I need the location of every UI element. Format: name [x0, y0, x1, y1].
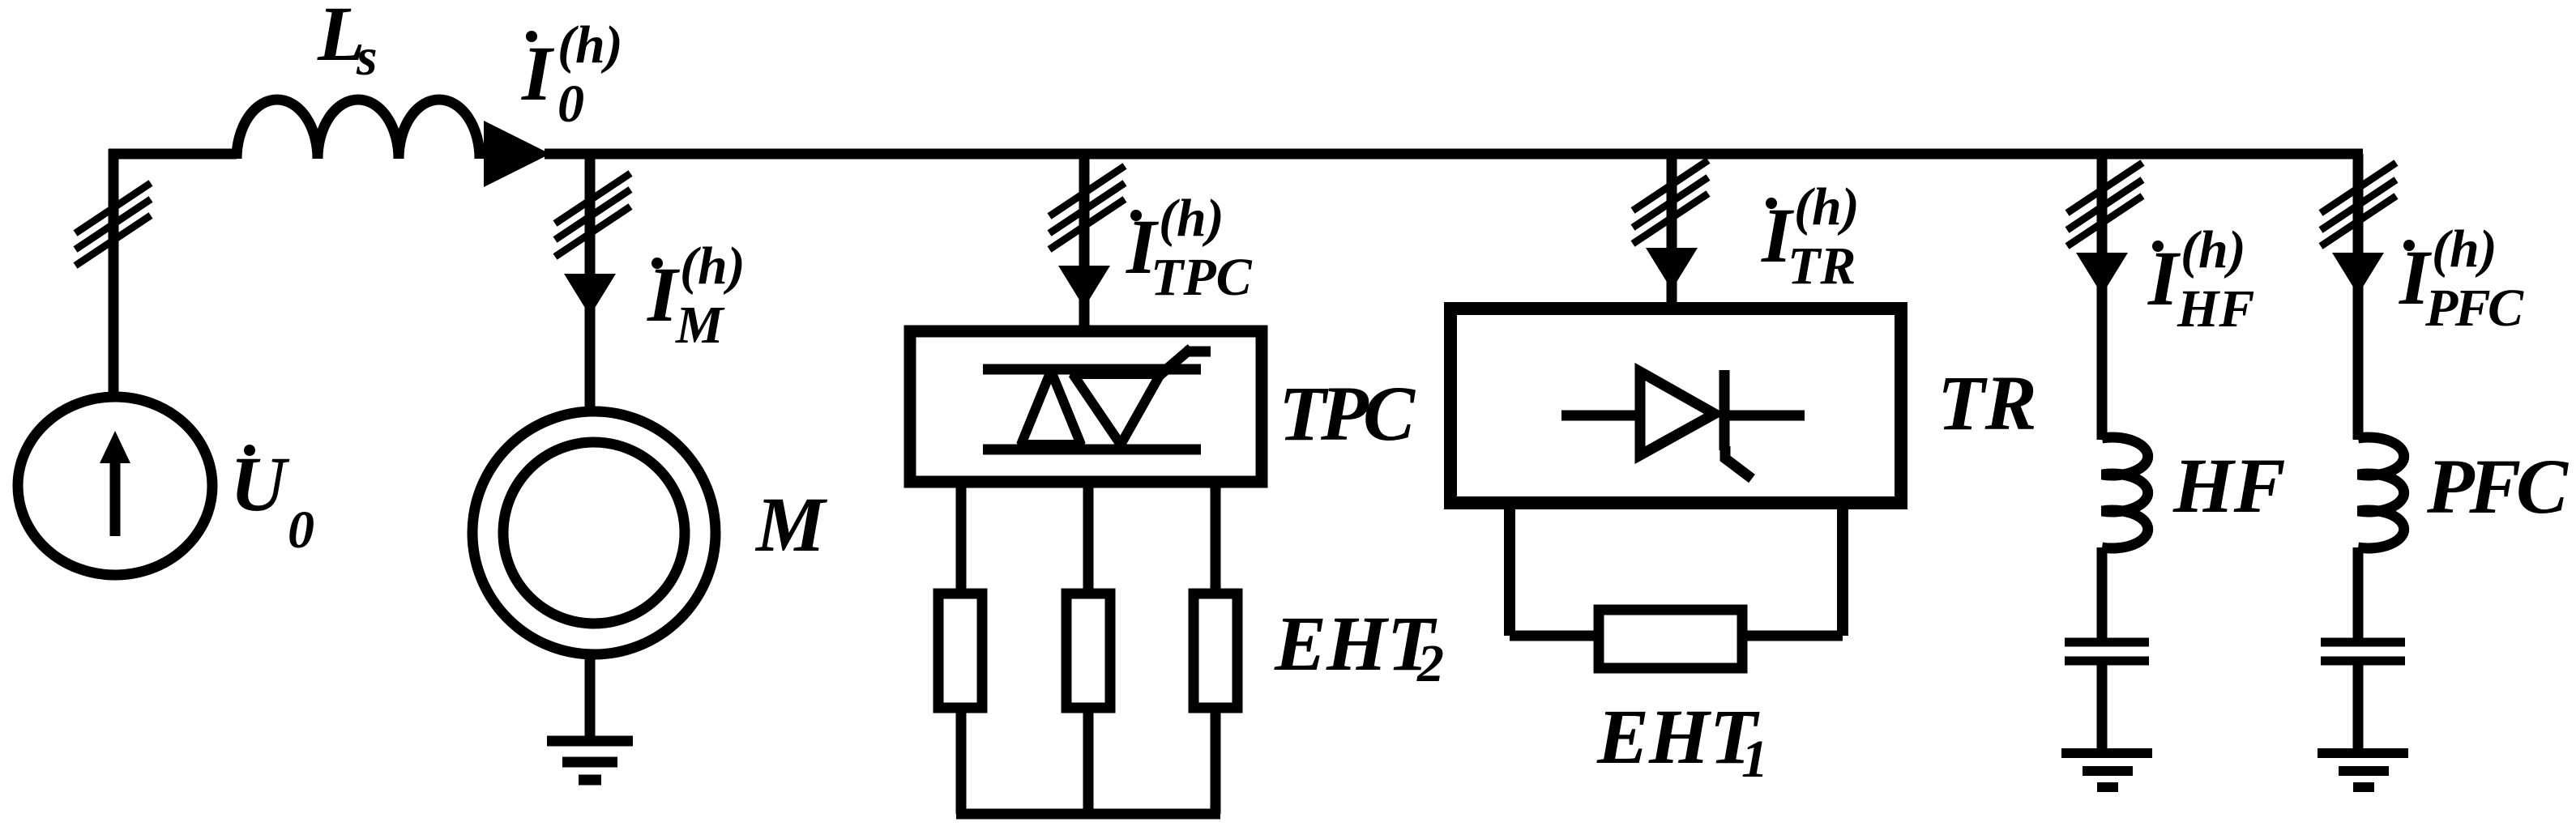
- hash branch M: [555, 173, 630, 257]
- svg-text:PFC: PFC: [2426, 443, 2569, 530]
- svg-text:TPC: TPC: [1279, 370, 1416, 457]
- label ITRh: [1766, 198, 1777, 209]
- svg-text:PFC: PFC: [2424, 279, 2524, 338]
- svg-text:TPC: TPC: [1151, 248, 1253, 307]
- box TPC: [910, 331, 1262, 482]
- svg-text:(h): (h): [557, 15, 623, 75]
- thyristor cathode bar: [1719, 370, 1730, 450]
- ground motor: [547, 736, 633, 747]
- arrow IM: [564, 274, 616, 316]
- svg-text:EHT: EHT: [1274, 600, 1438, 687]
- capacitor HF top plate: [2065, 638, 2149, 647]
- wire left horizontal stub: [109, 149, 237, 160]
- hash branch TR: [1633, 160, 1708, 244]
- label IPFCh: [2403, 240, 2415, 251]
- wire left leg to EHT1: [1510, 631, 1599, 641]
- triac down triangle: [1073, 374, 1160, 445]
- svg-text:(h): (h): [1159, 189, 1224, 248]
- svg-text:I: I: [2147, 235, 2181, 322]
- wire PFC coil to cap: [2353, 547, 2364, 642]
- motor M inner circle: [503, 442, 685, 624]
- thyristor gate lead: [1725, 446, 1752, 479]
- svg-text:M: M: [754, 481, 828, 568]
- label ITPCh: [1130, 210, 1142, 221]
- hash branch PFC: [2321, 163, 2396, 246]
- wire EHT2 a to bottom bar: [956, 708, 967, 814]
- wire left vertical: [109, 149, 119, 401]
- svg-text:I: I: [521, 30, 555, 117]
- resistor EHT1: [1599, 610, 1742, 668]
- svg-text:s: s: [356, 28, 378, 87]
- wire HF cap to ground: [2097, 661, 2108, 753]
- label U0: [244, 445, 255, 456]
- arrow IHF: [2076, 253, 2128, 295]
- svg-text:HF: HF: [2172, 442, 2286, 529]
- hash branch HF: [2067, 163, 2142, 246]
- resistor EHT2 a: [938, 594, 982, 708]
- ground PFC: [2318, 748, 2408, 758]
- ground HF: [2061, 748, 2152, 758]
- capacitor PFC top plate: [2321, 638, 2405, 647]
- node arrow I0: [484, 121, 550, 187]
- capacitor HF bottom plate: [2065, 657, 2149, 666]
- inductor Ls: [237, 100, 480, 159]
- arrow IPFC: [2332, 253, 2384, 295]
- svg-text:HF: HF: [2177, 279, 2254, 339]
- svg-text:(h): (h): [680, 236, 745, 296]
- wire PFC cap to ground: [2353, 661, 2364, 753]
- capacitor PFC bottom plate: [2321, 657, 2405, 666]
- svg-text:EHT: EHT: [1596, 693, 1760, 780]
- wire TR box left leg: [1504, 503, 1515, 636]
- hash left feeder: [75, 183, 151, 266]
- svg-text:0: 0: [288, 500, 314, 560]
- triac gate lead: [1157, 348, 1191, 377]
- svg-text:(h): (h): [2181, 220, 2246, 279]
- wire branch HF: [2097, 154, 2108, 440]
- wire main bus: [545, 149, 2363, 160]
- wire bottom bar TPC: [956, 809, 1220, 820]
- inductor HF: [2102, 437, 2148, 548]
- motor M outer circle: [472, 411, 716, 654]
- resistor EHT2 b: [1066, 594, 1110, 708]
- svg-text:M: M: [675, 296, 725, 355]
- svg-text:(h): (h): [1794, 177, 1860, 236]
- wire branch TR: [1667, 154, 1677, 309]
- thyristor triangle: [1640, 372, 1715, 455]
- wire EHT1 to right leg: [1742, 631, 1843, 641]
- arrow ITPC: [1058, 266, 1110, 308]
- thyristor anode lead: [1561, 411, 1638, 421]
- svg-text:0: 0: [557, 75, 584, 134]
- wire TPC box to EHT2 a: [956, 482, 967, 594]
- resistor EHT2 c: [1194, 594, 1237, 708]
- label IHFh: [2152, 241, 2164, 252]
- svg-text:U: U: [230, 441, 290, 527]
- label I0h: [526, 31, 537, 42]
- svg-text:2: 2: [1416, 634, 1444, 693]
- source U0 circle: [18, 397, 212, 575]
- wire HF coil to cap: [2097, 547, 2108, 642]
- wire TPC box to EHT2 c: [1211, 482, 1221, 594]
- svg-text:1: 1: [1741, 730, 1768, 789]
- source U0 arrow: [110, 462, 121, 536]
- wire branch PFC: [2353, 154, 2364, 440]
- wire TR box right leg: [1837, 503, 1848, 636]
- hash branch TPC: [1049, 166, 1125, 249]
- arrow ITR: [1646, 248, 1698, 290]
- wire branch M: [585, 154, 596, 415]
- inductor PFC: [2358, 437, 2404, 548]
- svg-text:TR: TR: [1937, 360, 2037, 446]
- wire EHT2 b to bottom bar: [1083, 708, 1094, 814]
- label IMh: [651, 258, 663, 269]
- wire EHT2 c to bottom bar: [1211, 708, 1221, 814]
- svg-text:TR: TR: [1788, 236, 1856, 296]
- wire branch TPC: [1079, 154, 1090, 331]
- triac up triangle: [1021, 371, 1081, 445]
- thyristor cathode lead: [1724, 411, 1805, 421]
- svg-text:(h): (h): [2432, 219, 2497, 279]
- triac top bar: [983, 364, 1201, 375]
- wire TPC box to EHT2 b: [1083, 482, 1094, 594]
- wire below motor: [585, 654, 596, 741]
- triac bottom bar: [983, 445, 1201, 455]
- box TR: [1450, 309, 1901, 503]
